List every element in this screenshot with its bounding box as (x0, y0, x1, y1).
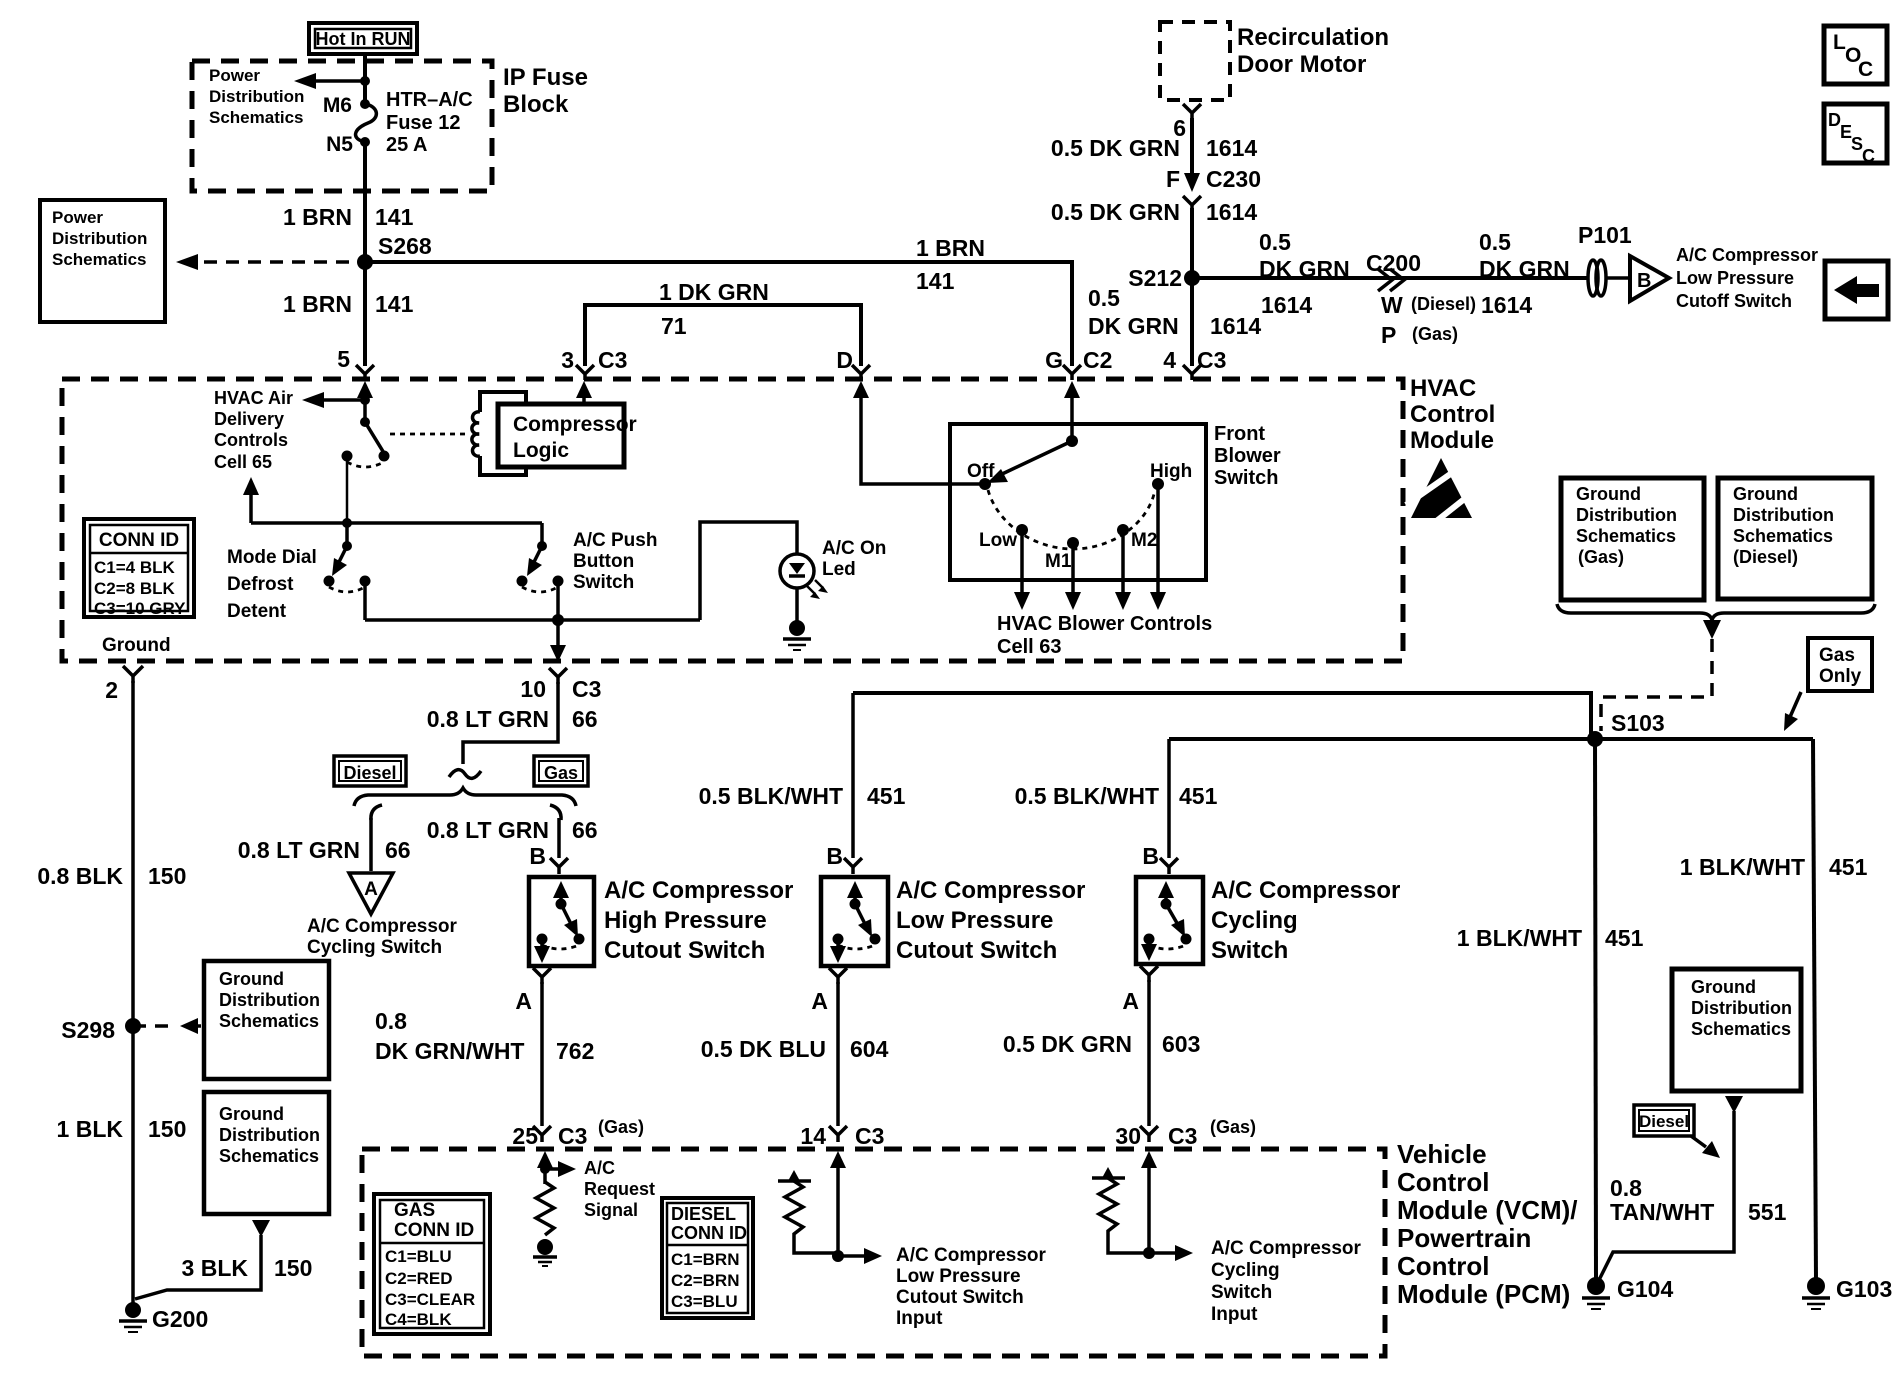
svg-text:A: A (515, 988, 532, 1014)
svg-text:Distribution: Distribution (52, 229, 147, 248)
svg-text:604: 604 (850, 1036, 889, 1062)
label: W (Diesel) P (Gas) (1381, 292, 1476, 348)
label: 1 BRN 141 (right run) (916, 235, 985, 294)
svg-text:Distribution: Distribution (219, 990, 320, 1010)
svg-text:A/C Compressor: A/C Compressor (896, 877, 1085, 904)
svg-text:1 BRN: 1 BRN (916, 235, 985, 261)
svg-text:551: 551 (1748, 1199, 1787, 1225)
svg-text:Blower: Blower (1214, 445, 1281, 467)
svg-text:Power: Power (209, 66, 260, 85)
svg-text:B: B (1142, 843, 1159, 869)
svg-text:0.8 LT GRN: 0.8 LT GRN (238, 837, 360, 863)
compressor logic coil (472, 392, 526, 475)
arrow: Gas Only to wire (1784, 692, 1801, 731)
inline connector C230 (1183, 173, 1201, 212)
wire+arrow: terminal 25 into VCM (537, 1151, 553, 1184)
svg-text:Logic: Logic (513, 439, 569, 462)
svg-text:Distribution: Distribution (1733, 505, 1834, 525)
terminal 2 connector (105, 666, 143, 703)
label: A/C Compressor Low Pressure Cutoff Switch (1676, 245, 1818, 311)
svg-text:451: 451 (867, 783, 906, 809)
Diesel box (bottom) (1634, 1105, 1694, 1136)
terminal 10 connector (549, 668, 567, 684)
label: 1 BRN 141 (below S268) (283, 291, 414, 317)
svg-text:451: 451 (1829, 854, 1868, 880)
svg-text:0.8 BLK: 0.8 BLK (37, 863, 123, 889)
svg-text:Gas: Gas (544, 763, 578, 783)
label: 1 DK GRN 71 (659, 279, 769, 339)
svg-text:Switch: Switch (1211, 1282, 1272, 1303)
GDS box (G104) (1672, 969, 1801, 1091)
svg-text:Switch: Switch (1214, 467, 1278, 489)
svg-text:603: 603 (1162, 1031, 1200, 1057)
splice S268 (357, 254, 373, 270)
wire+arrow: terminal 30 into VCM (1141, 1151, 1157, 1253)
label: 14 C3 (800, 1123, 884, 1149)
label: A/C Compressor Cycling Switch (triangle) (307, 916, 458, 958)
label: 0.5 DK GRN 1614 (below C230) (1051, 199, 1257, 225)
svg-text:Cycling: Cycling (1211, 907, 1298, 934)
svg-text:A/C Compressor: A/C Compressor (307, 916, 458, 937)
label: B (high pressure) (529, 843, 546, 869)
svg-text:Controls: Controls (214, 430, 288, 450)
ESD symbol (1406, 458, 1477, 523)
svg-text:10: 10 (520, 676, 546, 702)
label: 0.5 BLK/WHT 451 (right) (1015, 783, 1218, 809)
wire+arrow: terminal G into blower switch (1064, 381, 1080, 441)
terminal 6 connector (1183, 104, 1201, 120)
svg-text:A/C Compressor: A/C Compressor (1211, 1238, 1362, 1259)
arrow: low pressure input (832, 1248, 882, 1264)
arrow: Diesel to wire (1691, 1136, 1720, 1158)
svg-text:Module (PCM): Module (PCM) (1397, 1279, 1570, 1309)
label: B (cycling) (1142, 843, 1159, 869)
wire: terminal 10 to split (463, 682, 558, 764)
terminal A (low pressure) (811, 968, 847, 1014)
dashed arrow: S298 to GDS box (133, 1018, 204, 1034)
LOC box (1824, 26, 1887, 84)
svg-text:TAN/WHT: TAN/WHT (1610, 1199, 1714, 1225)
svg-text:(Gas): (Gas) (1210, 1117, 1256, 1137)
svg-text:DIESEL: DIESEL (671, 1204, 736, 1224)
svg-text:Request: Request (584, 1179, 655, 1199)
svg-text:451: 451 (1179, 783, 1218, 809)
svg-text:150: 150 (274, 1255, 312, 1281)
arrow: bus to terminal 10 (550, 620, 566, 662)
label: B (low pressure) (826, 843, 843, 869)
svg-text:C3: C3 (598, 347, 627, 373)
svg-text:S298: S298 (61, 1017, 115, 1043)
svg-text:B: B (1637, 270, 1651, 292)
svg-text:S212: S212 (1128, 265, 1182, 291)
svg-text:Cycling Switch: Cycling Switch (307, 937, 442, 958)
svg-text:Hot In RUN: Hot In RUN (316, 29, 411, 49)
label: S268 (378, 233, 432, 259)
label: 1 BLK 150 (57, 1116, 187, 1142)
svg-text:3: 3 (561, 347, 574, 373)
svg-text:G104: G104 (1617, 1276, 1673, 1302)
svg-text:4: 4 (1163, 347, 1176, 373)
svg-text:C3=10 GRY: C3=10 GRY (94, 599, 186, 618)
svg-text:HVAC Blower Controls: HVAC Blower Controls (997, 613, 1212, 635)
svg-text:Ground: Ground (219, 1104, 284, 1124)
wire: bus drop to low pressure switch B (844, 693, 862, 874)
svg-text:Ground: Ground (1691, 977, 1756, 997)
svg-text:Control: Control (1397, 1167, 1489, 1197)
arrow+wire: GDS to G200 run (135, 1220, 270, 1299)
label: N5 (326, 133, 353, 156)
label: A/C Request Signal (584, 1158, 655, 1220)
terminal chevrons on HVAC top edge (356, 365, 1201, 380)
label: A/C Compressor Cycling Switch Input (1211, 1238, 1362, 1325)
svg-text:B: B (826, 843, 843, 869)
svg-text:150: 150 (148, 1116, 186, 1142)
connector A triangle (cycling switch) (349, 873, 393, 914)
svg-text:71: 71 (661, 313, 687, 339)
wire break (diesel/gas split) (449, 770, 481, 779)
label: 0.8 LT GRN 66 (left branch) (238, 837, 411, 863)
svg-text:M6: M6 (323, 94, 352, 117)
svg-text:C2=RED: C2=RED (385, 1269, 453, 1288)
svg-text:0.5: 0.5 (1259, 229, 1291, 255)
svg-text:A/C Compressor: A/C Compressor (1676, 245, 1818, 265)
svg-text:2: 2 (105, 677, 118, 703)
svg-text:Vehicle: Vehicle (1397, 1139, 1487, 1169)
svg-text:C3: C3 (1197, 347, 1226, 373)
arrow+wire: GDS to G104 (TAN/WHT) (1599, 1096, 1743, 1280)
label: 3 BLK 150 (182, 1255, 313, 1281)
left branch hook and wire (371, 805, 382, 871)
ground G200 (119, 1302, 208, 1332)
label: 30 C3 (Gas) (1115, 1117, 1256, 1149)
svg-text:High Pressure: High Pressure (604, 907, 767, 934)
CONN ID box (84, 519, 194, 618)
svg-text:A/C: A/C (584, 1158, 615, 1178)
brace: diesel/gas branches (354, 788, 576, 806)
ground (request signal) (533, 1239, 557, 1266)
svg-text:Front: Front (1214, 423, 1265, 445)
splice S103 (1587, 731, 1603, 747)
fuse F12 (HTR-A/C) (356, 99, 377, 147)
label: S212 (1128, 265, 1182, 291)
svg-text:0.5 DK BLU: 0.5 DK BLU (701, 1036, 826, 1062)
label: 0.8 DK GRN/WHT 762 (375, 1008, 594, 1064)
box: Power Distribution Schematics (40, 200, 165, 322)
label: Ground (102, 635, 171, 656)
svg-text:14: 14 (800, 1123, 826, 1149)
label: A/C Compressor Cycling Switch (1211, 877, 1400, 964)
label: A/C On Led (822, 538, 886, 580)
svg-text:Schematics: Schematics (219, 1011, 319, 1031)
svg-text:Schematics: Schematics (209, 108, 304, 127)
svg-text:W: W (1381, 292, 1403, 318)
label: HVAC Air Delivery Controls Cell 65 (214, 388, 293, 472)
inline connector C200 (1378, 269, 1404, 291)
label: 0.5 DK GRN 1614 / C200 (1259, 229, 1421, 318)
svg-text:Distribution: Distribution (209, 87, 304, 106)
svg-text:(Gas): (Gas) (1412, 324, 1458, 344)
wire: fuse to terminal 5 (363, 142, 367, 366)
splice S298 (61, 1017, 141, 1043)
svg-text:1 BLK/WHT: 1 BLK/WHT (1680, 854, 1805, 880)
svg-text:Schematics: Schematics (1691, 1019, 1791, 1039)
svg-text:DK GRN/WHT: DK GRN/WHT (375, 1038, 524, 1064)
wire: BLK/WHT upper bus (853, 693, 1591, 735)
svg-text:C3: C3 (558, 1123, 587, 1149)
svg-text:A: A (811, 988, 828, 1014)
svg-text:3 BLK: 3 BLK (182, 1255, 249, 1281)
connector P101 (1588, 260, 1628, 296)
wire: S212 to P101 (1192, 276, 1587, 280)
svg-text:F: F (1166, 166, 1180, 192)
svg-text:C4=BLK: C4=BLK (385, 1310, 452, 1329)
svg-text:Low Pressure: Low Pressure (896, 907, 1053, 934)
label: 0.5 BLK/WHT 451 (left) (699, 783, 906, 809)
ground G104 (1582, 1276, 1673, 1309)
svg-text:1 BRN: 1 BRN (283, 291, 352, 317)
label: HVAC Blower Controls Cell 63 (997, 613, 1212, 658)
svg-text:Ground: Ground (1576, 484, 1641, 504)
svg-text:(Diesel): (Diesel) (1411, 294, 1476, 314)
label: 0.5 DK GRN 1614 (below S212) (1088, 285, 1261, 339)
svg-text:D: D (836, 347, 853, 373)
svg-text:CONN ID: CONN ID (394, 1220, 474, 1241)
label: M6 (323, 94, 352, 117)
svg-text:Schematics: Schematics (1576, 526, 1676, 546)
svg-text:P: P (1381, 322, 1396, 348)
wire: S268 to terminal G (365, 262, 1072, 366)
label: A/C Compressor High Pressure Cutout Switch (604, 877, 793, 964)
splice S212 (1184, 270, 1200, 286)
wire: C230 to terminal 4 (1190, 208, 1194, 366)
svg-text:Cutout Switch: Cutout Switch (896, 1287, 1024, 1308)
A/C compressor low pressure cutout switch (821, 877, 888, 966)
svg-text:Ground: Ground (219, 969, 284, 989)
svg-text:Module: Module (1410, 427, 1494, 454)
terminal labels 3 C3 D G C2 4 C3 (561, 347, 1226, 373)
svg-text:1614: 1614 (1206, 199, 1257, 225)
label: 0.5 DK GRN 1614 (right of C200) (1479, 229, 1570, 318)
svg-text:G200: G200 (152, 1306, 208, 1332)
blower switch wiper (987, 435, 1078, 483)
label: 1 BRN 141 (above S268) (283, 204, 414, 230)
svg-text:Detent: Detent (227, 601, 287, 622)
svg-text:G103: G103 (1836, 1276, 1892, 1302)
svg-text:C3: C3 (1168, 1123, 1197, 1149)
GAS CONN ID box (374, 1194, 490, 1334)
svg-text:S103: S103 (1611, 710, 1665, 736)
svg-text:Diesel: Diesel (1639, 1112, 1689, 1131)
svg-text:Cutoff Switch: Cutoff Switch (1676, 291, 1792, 311)
label: 0.8 LT GRN 66 (top) (427, 706, 598, 732)
wire+arrow: terminal 14 into VCM (830, 1151, 846, 1256)
svg-text:C3: C3 (855, 1123, 884, 1149)
svg-text:C3: C3 (572, 676, 601, 702)
svg-text:150: 150 (148, 863, 186, 889)
svg-text:(Gas): (Gas) (1578, 547, 1624, 567)
svg-text:A/C Compressor: A/C Compressor (604, 877, 793, 904)
label box: Hot In RUN (309, 23, 417, 54)
svg-text:A/C On: A/C On (822, 538, 886, 559)
svg-text:C2=8 BLK: C2=8 BLK (94, 579, 175, 598)
dashed wire: GDS brace to S103 (1601, 639, 1712, 731)
wire: LED loop (700, 522, 797, 620)
front blower switch box (950, 424, 1206, 580)
Gas Only box (1808, 638, 1872, 691)
recirculation door motor (dashed box) (1160, 22, 1230, 100)
svg-text:HVAC: HVAC (1410, 375, 1476, 402)
svg-text:Fuse 12: Fuse 12 (386, 112, 460, 134)
svg-text:A: A (1122, 988, 1139, 1014)
svg-text:451: 451 (1605, 925, 1644, 951)
svg-text:5: 5 (337, 346, 350, 372)
label: 10 C3 (520, 676, 601, 702)
svg-text:Compressor: Compressor (513, 413, 637, 436)
GDS gas box (1561, 478, 1704, 600)
svg-text:Only: Only (1819, 666, 1862, 687)
right branch hook and wire (550, 805, 568, 874)
LED ground (783, 588, 811, 650)
svg-text:25: 25 (512, 1123, 538, 1149)
svg-text:Cell 63: Cell 63 (997, 636, 1061, 658)
resistor (request signal) (536, 1182, 554, 1235)
label: IP Fuse Block (503, 64, 588, 118)
svg-text:DK GRN: DK GRN (1259, 256, 1350, 282)
svg-text:1614: 1614 (1481, 292, 1532, 318)
svg-text:A/C Push: A/C Push (573, 530, 657, 551)
GDS box (G200) (204, 1092, 329, 1214)
svg-text:1614: 1614 (1206, 135, 1257, 161)
Gas box (534, 756, 588, 786)
svg-text:0.8 LT GRN: 0.8 LT GRN (427, 817, 549, 843)
svg-text:Switch: Switch (573, 572, 634, 593)
wire: bus drop to cycling switch B (1160, 739, 1178, 874)
label: 25 C3 (Gas) (512, 1117, 644, 1149)
dashed wire: S268 to power distribution box (176, 254, 365, 270)
label: Mode Dial Defrost Detent (227, 547, 317, 622)
svg-text:IP Fuse: IP Fuse (503, 64, 588, 91)
svg-text:G: G (1045, 347, 1063, 373)
label: S103 (1611, 710, 1665, 736)
GDS box (S298) (204, 961, 329, 1079)
A/C compressor cycling switch (1136, 877, 1203, 964)
svg-text:High: High (1150, 461, 1192, 482)
svg-text:Cell 65: Cell 65 (214, 452, 272, 472)
svg-text:Low: Low (979, 530, 1017, 551)
svg-text:0.5: 0.5 (1479, 229, 1511, 255)
wire+arrow: compressor logic to terminal 3 (576, 381, 592, 404)
svg-text:S268: S268 (378, 233, 432, 259)
HVAC control module (dashed box) (62, 379, 1403, 661)
svg-text:CONN ID: CONN ID (99, 530, 179, 551)
svg-text:C3=BLU: C3=BLU (671, 1292, 738, 1311)
label: A/C Compressor Low Pressure Cutout Switch (896, 877, 1085, 964)
svg-text:1 BLK: 1 BLK (57, 1116, 124, 1142)
svg-text:0.5 DK GRN: 0.5 DK GRN (1003, 1031, 1132, 1057)
label: HTR-A/C Fuse 12 25 A (386, 89, 473, 156)
svg-text:C1=BLU: C1=BLU (385, 1247, 452, 1266)
svg-text:Control: Control (1410, 401, 1495, 428)
blower contacts and arc (979, 478, 1164, 549)
svg-text:Cutout Switch: Cutout Switch (896, 937, 1057, 964)
svg-text:HVAC Air: HVAC Air (214, 388, 293, 408)
svg-text:Low Pressure: Low Pressure (1676, 268, 1794, 288)
GDS diesel box (1718, 478, 1872, 599)
svg-text:Led: Led (822, 559, 856, 580)
arrow: cycling switch input (1143, 1245, 1193, 1261)
svg-text:Block: Block (503, 91, 569, 118)
wire: A to terminal 14 (829, 982, 847, 1142)
label: 0.5 DK BLU 604 (701, 1036, 889, 1062)
switch: mode dial defrost detent (324, 523, 371, 620)
svg-text:Button: Button (573, 551, 634, 572)
svg-text:Signal: Signal (584, 1200, 638, 1220)
svg-text:A/C Compressor: A/C Compressor (896, 1245, 1047, 1266)
DESC box (1824, 104, 1887, 166)
svg-text:141: 141 (375, 204, 414, 230)
svg-text:N5: N5 (326, 133, 353, 156)
connector B triangle (cutoff switch) (1630, 256, 1669, 301)
A/C compressor high pressure cutout switch (529, 877, 594, 966)
blower output wires (1014, 484, 1166, 610)
svg-text:A: A (364, 879, 378, 900)
svg-text:Off: Off (967, 461, 995, 482)
wire: S103 to G104 (1595, 739, 1596, 1280)
svg-text:1 DK GRN: 1 DK GRN (659, 279, 769, 305)
svg-text:Diesel: Diesel (343, 763, 396, 783)
label: terminal 5 (337, 346, 350, 372)
svg-text:Schematics: Schematics (52, 250, 147, 269)
svg-text:Cutout Switch: Cutout Switch (604, 937, 765, 964)
label: A/C Compressor Low Pressure Cutout Switch Input (896, 1245, 1047, 1329)
DIESEL CONN ID box (662, 1198, 753, 1318)
svg-text:A/C Compressor: A/C Compressor (1211, 877, 1400, 904)
dashed link to compressor logic (390, 433, 466, 436)
svg-text:C2=BRN: C2=BRN (671, 1271, 740, 1290)
VCM/PCM (dashed box) (362, 1149, 1385, 1356)
svg-text:1614: 1614 (1210, 313, 1261, 339)
svg-text:P101: P101 (1578, 222, 1632, 248)
arrow+wire: cell 65 feed (243, 477, 259, 523)
svg-text:GAS: GAS (394, 1200, 435, 1221)
svg-text:Distribution: Distribution (1576, 505, 1677, 525)
svg-text:141: 141 (375, 291, 414, 317)
A/C On LED (780, 554, 828, 599)
ground G103 (1802, 1276, 1892, 1309)
svg-text:30: 30 (1115, 1123, 1141, 1149)
svg-text:Defrost: Defrost (227, 574, 294, 595)
svg-text:141: 141 (916, 268, 955, 294)
A/C request signal arrow (540, 1161, 576, 1177)
svg-text:66: 66 (572, 817, 598, 843)
svg-text:Distribution: Distribution (1691, 998, 1792, 1018)
wire: switch bus (251, 518, 542, 528)
wire: Hot In RUN to fuse (363, 54, 367, 104)
label: 0.8 BLK 150 (37, 863, 186, 889)
label: 1 BLK/WHT 451 (G103 drop) (1680, 854, 1868, 880)
svg-text:0.5 BLK/WHT: 0.5 BLK/WHT (1015, 783, 1159, 809)
label: Recirculation Door Motor (1237, 24, 1389, 78)
svg-text:C1=BRN: C1=BRN (671, 1250, 740, 1269)
svg-text:1 BLK/WHT: 1 BLK/WHT (1457, 925, 1582, 951)
label: 0.5 DK GRN 603 (1003, 1031, 1200, 1057)
label: Power Distribution Schematics (in fuse block) (209, 66, 304, 127)
svg-text:Low Pressure: Low Pressure (896, 1266, 1021, 1287)
svg-text:Power: Power (52, 208, 103, 227)
svg-text:0.8: 0.8 (375, 1008, 407, 1034)
svg-text:Distribution: Distribution (219, 1125, 320, 1145)
wire: BLK/WHT lower bus through S103 (1169, 737, 1813, 741)
